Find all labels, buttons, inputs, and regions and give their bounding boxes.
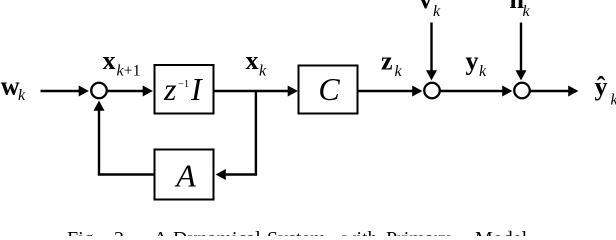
svg-text:Dynamical: Dynamical (173, 228, 261, 236)
arrowhead up into sum junction 1 (94, 101, 105, 111)
summing junction 1 (91, 83, 107, 99)
svg-text:k: k (18, 87, 26, 104)
wire A block back to sum junction 1 (99, 109, 154, 175)
label x_{k+1} (103, 46, 141, 80)
label y-hat_k (output) (595, 72, 616, 109)
summing junction 3 (514, 83, 530, 99)
svg-text:x: x (103, 46, 116, 75)
arrowhead into sum junction 2 (412, 86, 422, 97)
svg-text:I: I (190, 71, 203, 107)
svg-text:z: z (163, 71, 177, 107)
wire branch to A block (224, 173, 257, 175)
svg-text:2.: 2. (114, 228, 129, 236)
svg-text:−1: −1 (178, 79, 189, 90)
summing junction 2 (424, 83, 440, 99)
wire sum junction 1 to z^-1 I block (108, 90, 145, 92)
svg-text:Model: Model (475, 228, 528, 236)
svg-text:z: z (381, 47, 393, 76)
arrowhead into sum junction 1 (79, 86, 89, 97)
svg-text:A: A (174, 158, 196, 194)
svg-text:y: y (466, 47, 479, 76)
svg-text:x: x (246, 46, 259, 75)
svg-text:Fig.: Fig. (67, 228, 99, 236)
svg-text:with: with (342, 228, 378, 236)
svg-text:k: k (433, 3, 441, 20)
label x_k (246, 46, 268, 80)
arrowhead into z^-1 I block (143, 86, 153, 97)
block C (output matrix) (299, 66, 358, 114)
svg-text:k: k (395, 63, 403, 80)
arrowhead into sum junction 3 (502, 86, 512, 97)
arrowhead down into sum junction 3 (516, 70, 527, 80)
label y_k (466, 47, 488, 81)
svg-text:C: C (318, 71, 340, 107)
wire sum junction 2 to sum junction 3 (440, 90, 504, 92)
arrowhead output (568, 86, 578, 97)
wire sum junction 3 to output (530, 90, 570, 92)
svg-text:k: k (523, 3, 531, 20)
label n_k (secondary noise) (510, 0, 531, 20)
svg-text:v: v (419, 0, 432, 14)
svg-text:k: k (611, 92, 616, 109)
svg-text:k: k (259, 63, 267, 80)
block z^-1 I (delay) (155, 65, 214, 114)
wire C block to sum junction 2 (359, 90, 415, 92)
wire v_k down to sum junction 2 (430, 23, 432, 72)
svg-text:System: System (267, 228, 326, 236)
label z_k (381, 47, 403, 81)
wire branch down from x_k node (255, 90, 257, 176)
wire z^-1 I block to C block (215, 90, 290, 92)
block A (state matrix) (155, 150, 214, 200)
label v_k (measurement noise) (419, 0, 441, 20)
svg-text:ŷ: ŷ (595, 72, 608, 101)
label w_k (input noise) (1, 72, 26, 105)
arrowhead into A block (216, 169, 226, 180)
arrowhead down into sum junction 2 (426, 70, 437, 80)
svg-text:k: k (479, 63, 487, 80)
arrowhead into C block (288, 86, 298, 97)
wire n_k down to sum junction 3 (520, 23, 522, 72)
wire w_k to sum junction (41, 90, 81, 92)
svg-text:w: w (1, 72, 20, 101)
svg-text:k+1: k+1 (117, 63, 141, 80)
svg-text:A: A (154, 228, 169, 236)
svg-text:Primary: Primary (386, 228, 450, 236)
